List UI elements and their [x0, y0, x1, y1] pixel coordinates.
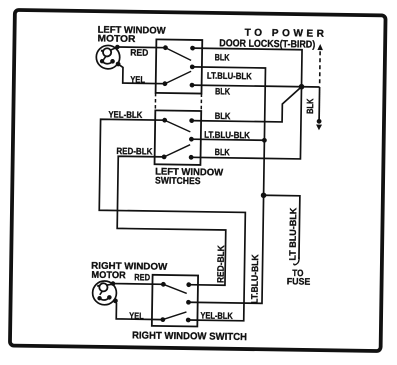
wire RED from motor M2 to switch S3 — [113, 283, 163, 286]
motor M1 terminal dot RED — [115, 45, 120, 50]
switch S3 right contact LT.BLU-BLK — [186, 300, 191, 305]
node N2 junction — [262, 138, 267, 143]
motor M2 brush link to terminal — [107, 284, 113, 285]
motor M2 terminal dot RED — [111, 281, 116, 286]
switch S2 body — [155, 110, 202, 165]
arrow up to power door locks — [317, 44, 323, 50]
switch S2 right contact BLK bottom — [189, 155, 194, 160]
switch S1 left contact RED — [163, 45, 168, 50]
svg-text:BLK: BLK — [215, 52, 230, 62]
motor M1 brush stem — [103, 56, 106, 60]
svg-text:RED-BLK: RED-BLK — [116, 146, 152, 157]
switch S2 right contact BLK top — [189, 118, 194, 123]
svg-text:LT.BLU-BLK: LT.BLU-BLK — [249, 254, 260, 304]
node N3 junction — [261, 192, 267, 198]
wire LT.BLU-BLK from S2 middle contact to node N2 — [191, 139, 264, 140]
switch S2 blade upper — [165, 120, 191, 132]
motor M1 left window motor body — [96, 45, 120, 69]
wire YEL-BLK from S2 to S3 bottom contact — [98, 119, 247, 321]
motor M1 brush bar left — [101, 50, 104, 52]
arrow down on stub — [316, 125, 322, 131]
switch S1 blade lower — [165, 71, 191, 84]
wire RED-BLK from S2 to S3 top contact — [116, 156, 226, 285]
wire BLK ground stub — [318, 87, 320, 119]
switch S1 blade upper — [165, 48, 191, 61]
switch S3 right contact RED-BLK — [186, 282, 191, 287]
wire LT BLU-BLK to fuse — [263, 195, 300, 259]
wire dashed to power door locks — [319, 50, 321, 83]
motor M2 commutator circle — [99, 283, 107, 291]
switch S3 right contact YEL-BLK — [186, 318, 191, 323]
motor M2 brush dot A — [97, 296, 101, 300]
svg-text:SWITCHES: SWITCHES — [155, 175, 201, 187]
switch S1 body — [156, 39, 203, 93]
switch S1 right contact BLK bottom — [190, 83, 195, 88]
svg-text:MOTOR: MOTOR — [91, 270, 126, 282]
svg-text:LT.BLU-BLK: LT.BLU-BLK — [207, 71, 252, 82]
motor M2 terminal dot YEL — [113, 298, 118, 303]
wire RED from motor M1 to switch S1 — [117, 46, 165, 49]
wire YEL from motor M1 to switch S1 — [118, 64, 165, 84]
switch S1 left contact YEL — [162, 81, 167, 86]
svg-text:FUSE: FUSE — [287, 276, 311, 286]
motor M1 terminal dot YEL — [116, 62, 121, 67]
svg-text:YEL-BLK: YEL-BLK — [200, 310, 233, 320]
switch S3 left contact YEL — [160, 317, 165, 322]
motor M1 winding arc — [102, 61, 113, 63]
svg-text:BLK: BLK — [215, 147, 230, 157]
motor M1 brush dot B — [110, 59, 115, 64]
svg-text:BLK: BLK — [305, 98, 315, 114]
svg-text:RIGHT WINDOW SWITCH: RIGHT WINDOW SWITCH — [132, 330, 247, 343]
switch S2 left contact RED-BLK — [162, 154, 167, 159]
svg-text:BLK: BLK — [215, 86, 230, 96]
svg-text:RED: RED — [130, 47, 148, 57]
motor M2 brush stem — [100, 291, 103, 295]
motor M1 commutator circle — [103, 48, 111, 56]
switch S1 right contact LT.BLU-BLK — [190, 64, 195, 69]
wire YEL from motor M2 to switch S3 — [115, 301, 163, 320]
svg-text:LT.BLU-BLK: LT.BLU-BLK — [204, 130, 250, 141]
switch S1 right contact BLK top — [190, 46, 195, 51]
motor M2 right window motor body — [92, 281, 116, 305]
switch S2 left contact YEL-BLK — [162, 118, 167, 123]
motor M1 brush dot A — [100, 59, 104, 63]
svg-text:BLK: BLK — [215, 111, 231, 121]
fuse wire end squiggle — [294, 257, 299, 265]
motor M2 brush bar left — [97, 285, 100, 287]
wire BLK from S2 top contact to node N1 — [192, 85, 302, 122]
svg-text:MOTOR: MOTOR — [98, 33, 136, 45]
switch assembly dashed link right — [200, 94, 202, 111]
switch S2 blade lower — [164, 144, 190, 157]
connector dot on stub — [317, 119, 322, 124]
svg-text:YEL: YEL — [129, 311, 144, 321]
svg-text:RED-BLK: RED-BLK — [215, 245, 226, 283]
wire BLK from S2 bottom contact up to node N1 — [191, 85, 301, 159]
svg-text:YEL: YEL — [130, 74, 145, 84]
motor M1 brush link to terminal — [111, 47, 117, 50]
switch S3 blade upper — [163, 284, 187, 293]
wire LT.BLU-BLK from S1 middle contact down to switch S3 — [188, 67, 265, 303]
svg-text:LT BLU-BLK: LT BLU-BLK — [288, 207, 299, 260]
motor M2 winding arc — [99, 297, 109, 300]
svg-text:RED: RED — [134, 272, 150, 282]
switch S2 right contact LT.BLU-BLK — [189, 137, 194, 142]
switch S3 blade lower — [163, 312, 187, 320]
svg-text:YEL-BLK: YEL-BLK — [108, 109, 142, 120]
switch S3 body — [152, 275, 198, 327]
motor M2 brush dot B — [107, 295, 112, 300]
node N1 junction — [299, 84, 305, 90]
wire BLK from S1 top contact to node N1 — [192, 48, 302, 87]
switch assembly dashed link left — [154, 93, 156, 110]
wire BLK from S1 bottom contact to node N1 — [192, 85, 320, 87]
switch S3 left contact RED — [161, 282, 166, 287]
